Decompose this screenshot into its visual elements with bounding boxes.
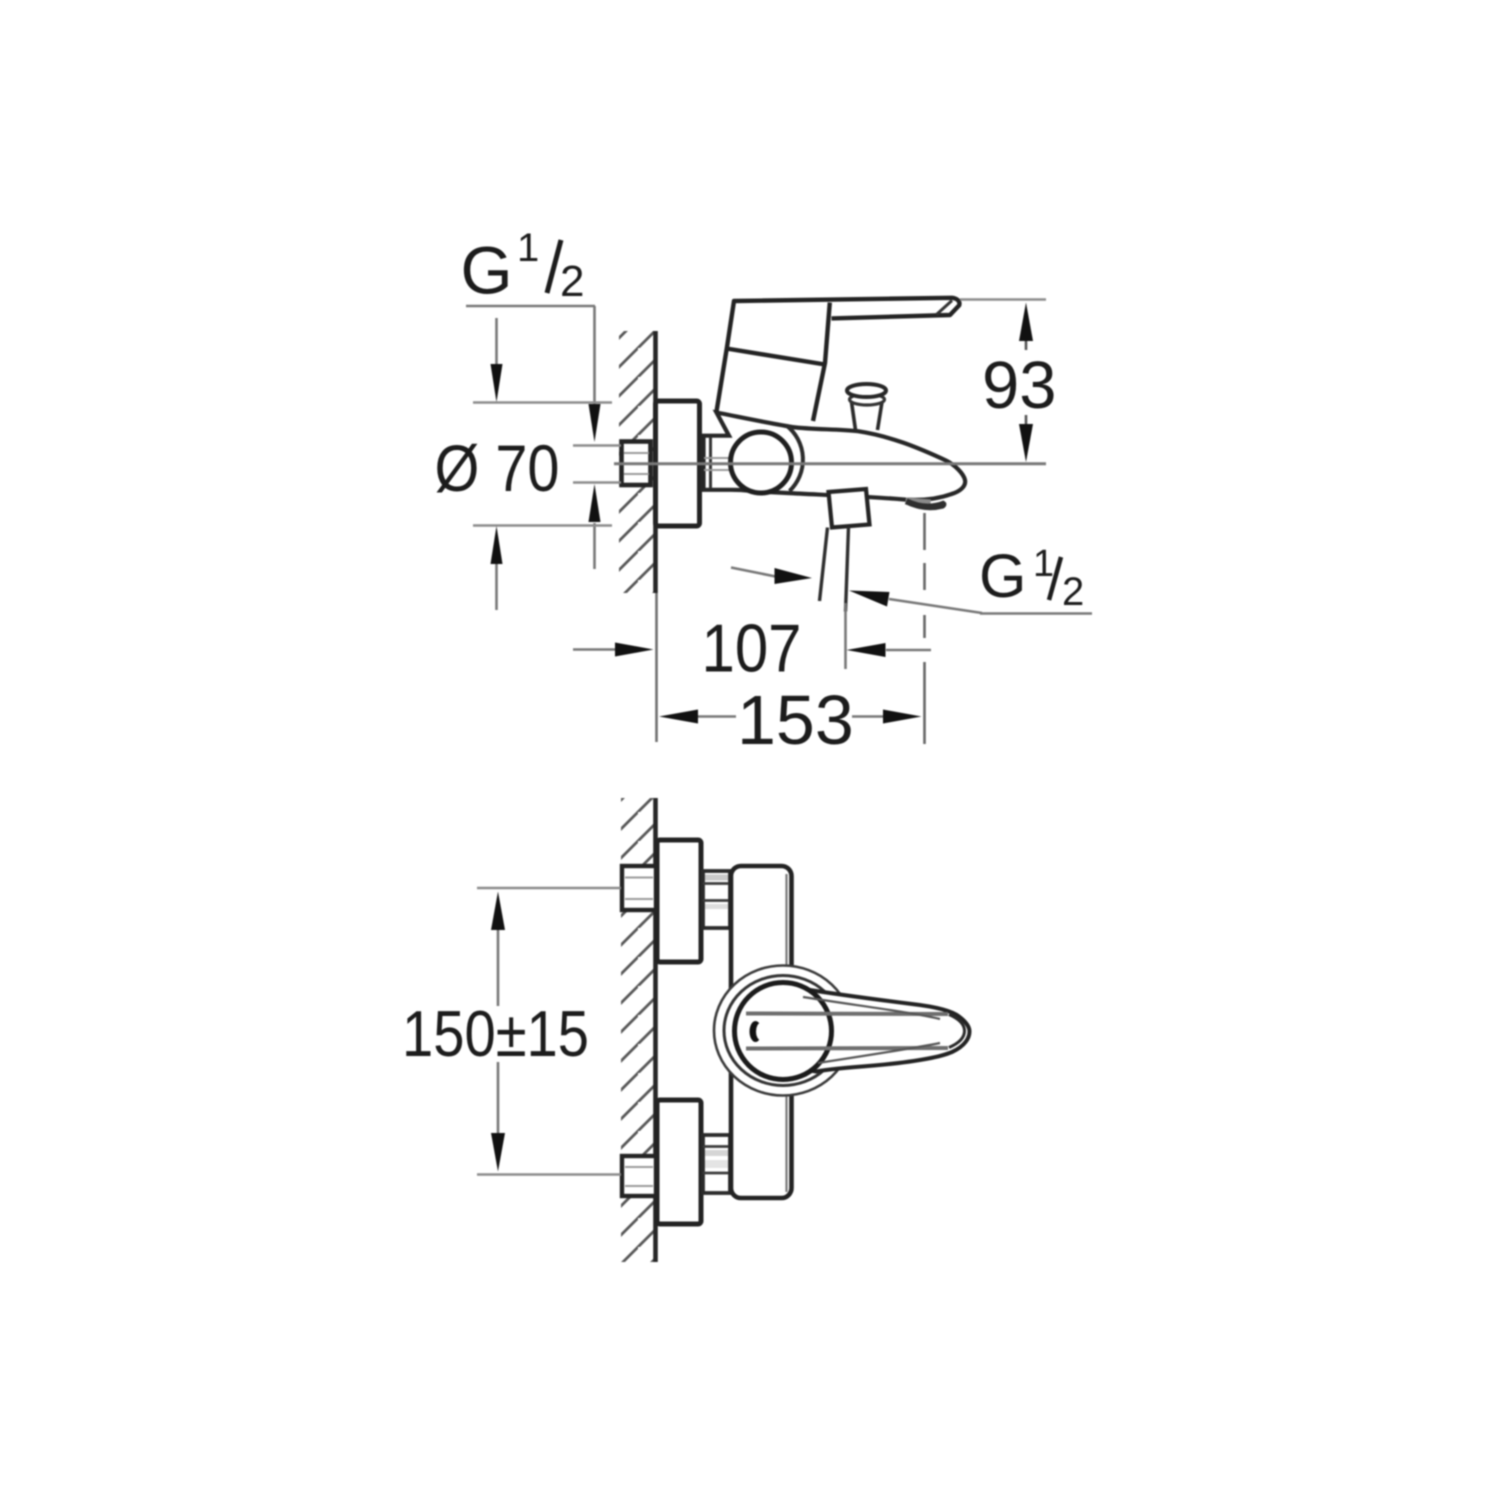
shower pipe lines (820, 528, 828, 602)
svg-text:G: G (461, 234, 513, 309)
svg-text:1: 1 (1033, 543, 1054, 585)
svg-text:1: 1 (517, 226, 539, 270)
shower outlet square below body (829, 489, 870, 528)
valve boss outer contour (714, 966, 852, 1096)
svg-text:150±15: 150±15 (402, 997, 589, 1070)
diverter knob on top of body (847, 384, 886, 430)
lower union nut (703, 1135, 730, 1193)
faucet body (front view) (731, 866, 792, 1198)
escutcheon (side view) (656, 401, 700, 526)
faucet body and spout (side view) (704, 413, 966, 500)
upper escutcheon (front view) (657, 840, 701, 962)
wall hatch (front view) (621, 798, 656, 1262)
wall line (side view) (653, 331, 658, 593)
ball housing arc (787, 426, 803, 492)
handle lever (front view) (790, 989, 970, 1072)
dimension 93 (right) (960, 300, 1057, 463)
centerline through body (614, 462, 1046, 465)
dimension Ø 70 (left) (435, 318, 613, 610)
handle cap circle (735, 983, 832, 1080)
wall hatch (side view) (619, 331, 655, 593)
svg-text:2: 2 (560, 257, 584, 306)
aerator at spout tip (905, 498, 931, 507)
svg-text:Ø 70: Ø 70 (435, 431, 560, 505)
ball joint (731, 432, 792, 493)
valve boss middle ring (724, 976, 842, 1086)
label G 1/2 (bottom right) with leader (849, 542, 1092, 614)
svg-text:2: 2 (1062, 570, 1084, 614)
connector neck detail lines (704, 437, 730, 489)
dimension G 1/2 (top left) (461, 226, 622, 569)
svg-text:G: G (979, 542, 1026, 610)
upper union nut (703, 871, 730, 928)
leader arrow pointing at shower pipe (left) (731, 568, 812, 585)
dimension 107 (573, 603, 931, 687)
svg-text:153: 153 (737, 681, 854, 759)
wall extension line down to 153 dimension (655, 593, 658, 742)
dimension 150±15 (402, 888, 621, 1175)
dashed centerline of spout outlet (923, 513, 926, 744)
dimension 153 (659, 513, 925, 759)
handle lever (side view) (717, 298, 960, 421)
inlet union nut behind wall (622, 442, 651, 486)
upper wall nut (622, 866, 656, 910)
handle cap divider (727, 349, 826, 365)
lower escutcheon (front view) (657, 1100, 701, 1224)
nut extension lines (573, 444, 621, 447)
svg-text:107: 107 (702, 611, 802, 687)
lower wall nut (622, 1156, 656, 1196)
wall line (front view) (653, 798, 658, 1262)
temperature mark dot (750, 1021, 762, 1042)
svg-text:93: 93 (982, 348, 1057, 423)
lever inner edge lines (746, 997, 965, 1063)
